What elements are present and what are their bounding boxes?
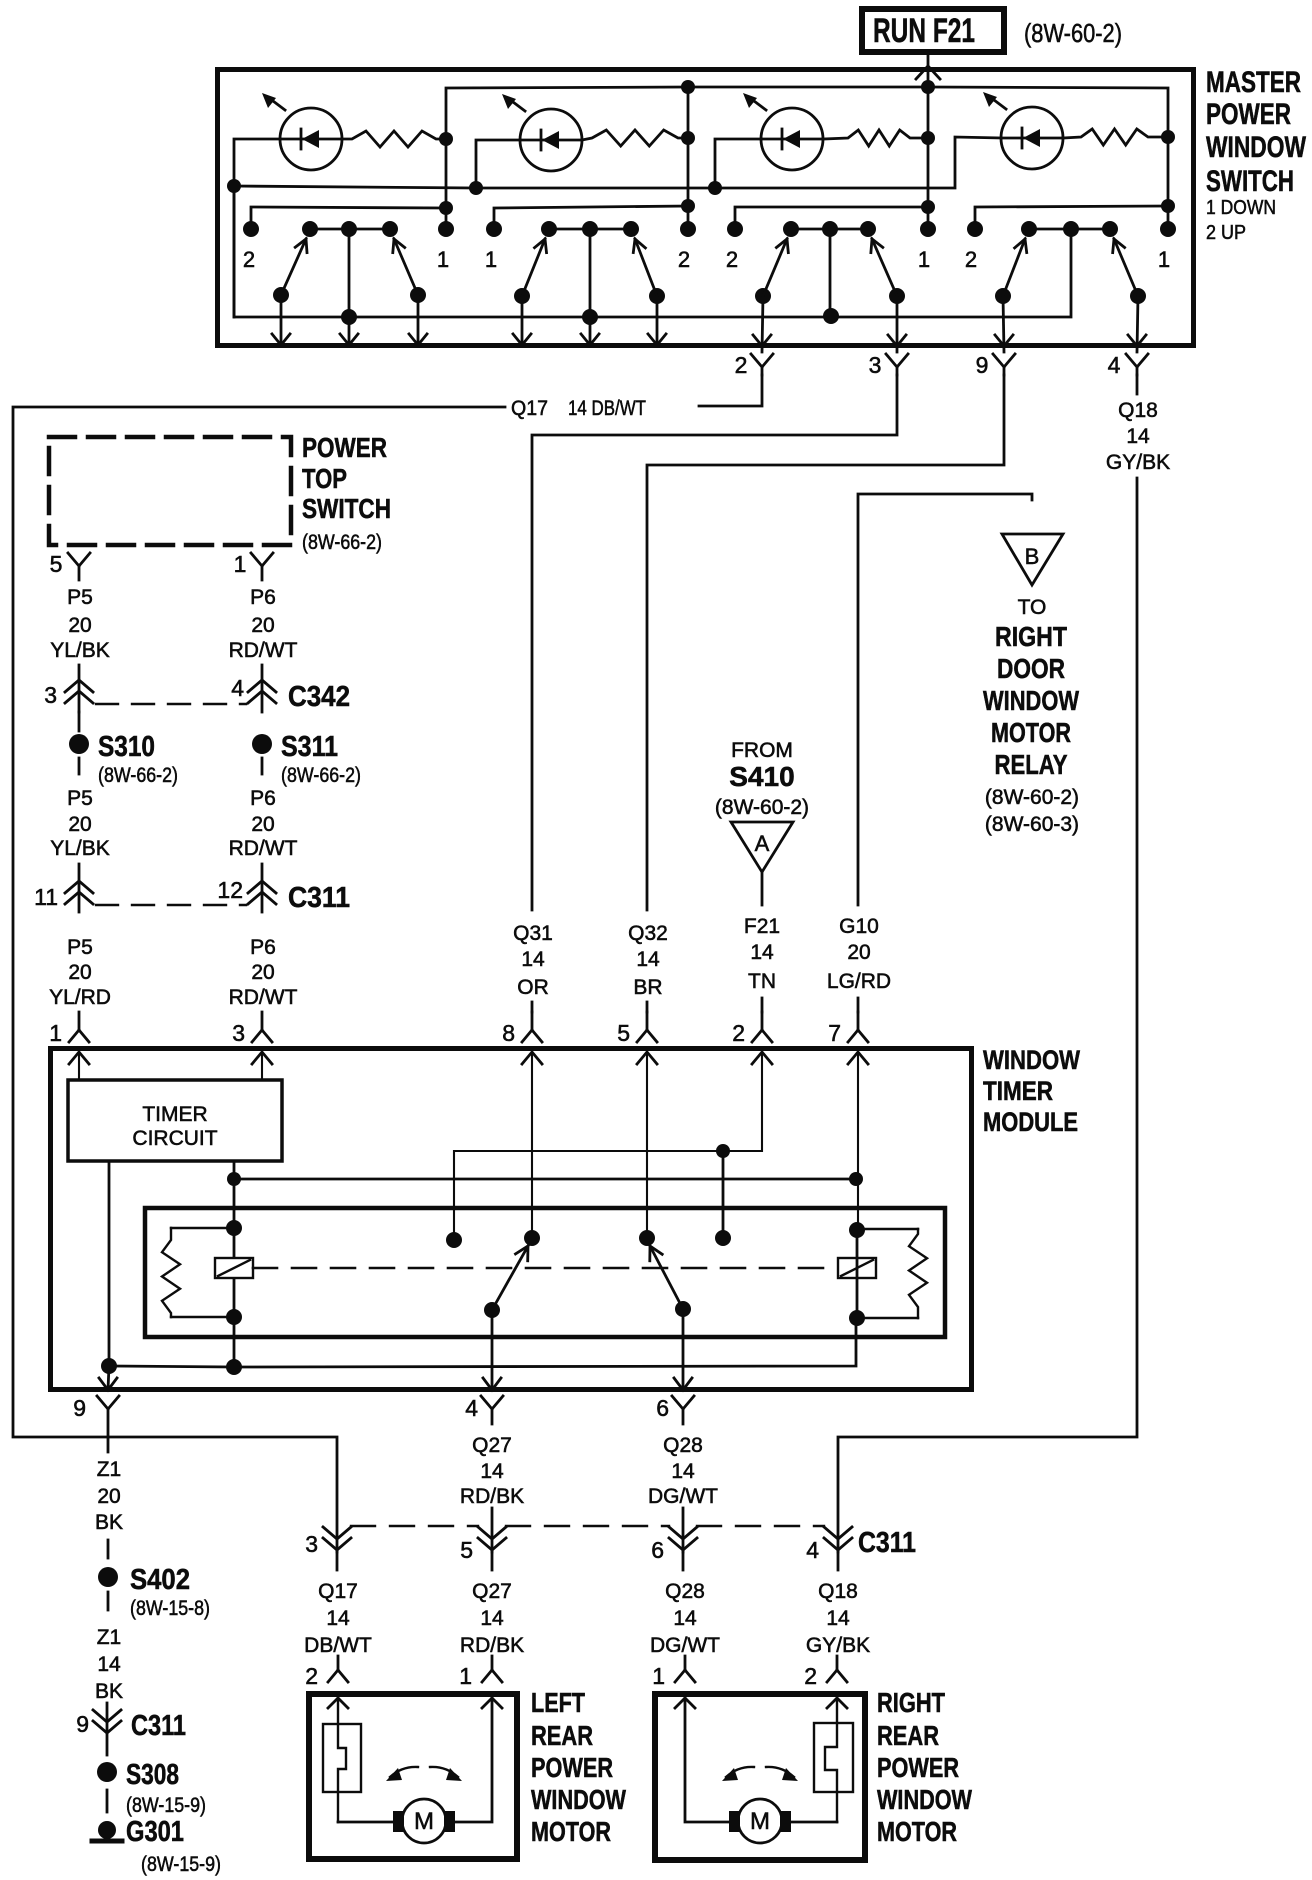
off-page connector triangle B [1002, 534, 1063, 585]
svg-text:RD/BK: RD/BK [460, 1634, 524, 1657]
svg-text:2: 2 [726, 247, 738, 272]
svg-text:FROM: FROM [731, 739, 793, 762]
svg-text:20: 20 [97, 1485, 120, 1508]
wire K2 coil vertical [856, 1230, 859, 1318]
switch S1 cell1 bridge [310, 228, 390, 231]
label MASTER POWER WINDOW SWITCH [1206, 66, 1307, 244]
svg-text:DG/WT: DG/WT [650, 1634, 720, 1657]
svg-text:Q31: Q31 [513, 922, 553, 945]
cell2 vertical x688 [687, 87, 690, 229]
svg-text:9: 9 [976, 352, 989, 378]
svg-text:12: 12 [217, 877, 243, 903]
left motor pin 1 entry arrow [482, 1698, 502, 1708]
module pin 4 connector Y [481, 1396, 503, 1424]
svg-text:3: 3 [305, 1531, 318, 1557]
svg-text:Q28: Q28 [663, 1434, 703, 1457]
dashed link C342 [96, 703, 246, 705]
svg-text:GY/BK: GY/BK [1106, 451, 1170, 474]
svg-text:(8W-66-2): (8W-66-2) [302, 531, 382, 554]
svg-text:3: 3 [869, 352, 882, 378]
wire Q32 lower stub + module pin 5 fork [646, 1002, 649, 1012]
svg-text:4: 4 [465, 1395, 478, 1421]
wire y207 segment cell4 [975, 206, 1168, 229]
cell3 left output arrow to pin 2 [762, 296, 763, 352]
svg-text:14: 14 [1126, 425, 1150, 448]
ground bus wire y1366 [109, 1318, 856, 1367]
svg-text:4: 4 [1108, 352, 1121, 378]
label Q32 14 BR [628, 922, 668, 999]
cell4 right output arrow to pin 4 [1137, 296, 1138, 352]
svg-text:YL/BK: YL/BK [50, 639, 110, 662]
svg-text:DOOR: DOOR [997, 653, 1065, 684]
left motor rotation arrows [386, 1767, 462, 1781]
labels Z1 14 BK [95, 1626, 123, 1703]
svg-text:(8W-60-3): (8W-60-3) [985, 813, 1079, 836]
label P6 20 RD/WT (lower) [229, 936, 298, 1009]
module pin 2 entry arrow [752, 1052, 772, 1064]
wire to S310 [78, 712, 81, 731]
svg-text:POWER: POWER [531, 1752, 613, 1783]
wire Q18 long run [838, 478, 1137, 1552]
connector C342 pin 3 [65, 680, 93, 703]
svg-text:WINDOW: WINDOW [983, 685, 1079, 716]
svg-text:14: 14 [750, 941, 774, 964]
svg-text:WINDOW: WINDOW [1206, 131, 1307, 164]
svg-text:2: 2 [965, 247, 977, 272]
svg-text:1 DOWN: 1 DOWN [1206, 197, 1276, 219]
lamp L4 cell 4 [983, 92, 1063, 169]
cell1 left lower arrow [280, 295, 283, 345]
module pin 1 entry arrow [69, 1052, 89, 1064]
dots on y207 [439, 199, 1175, 215]
label Q18 14 GY/BK [1106, 399, 1170, 474]
module pin 9 exit arrow [108, 1366, 109, 1390]
cell1 vertical x446 [445, 139, 448, 229]
svg-text:5: 5 [460, 1537, 473, 1563]
power top switch pin 5 connector Y [68, 553, 90, 580]
svg-text:LG/RD: LG/RD [827, 970, 891, 993]
switch arm cell1 left [281, 239, 306, 295]
svg-text:14: 14 [521, 948, 545, 971]
svg-text:G301: G301 [126, 1816, 184, 1848]
svg-text:Q32: Q32 [628, 922, 668, 945]
wire lamp2 left leg [476, 140, 520, 188]
pin 3 connector Y [886, 354, 908, 375]
connector C311 pin 6 [669, 1527, 697, 1570]
ground G301 [92, 1821, 122, 1841]
lamp L3 cell 3 [743, 93, 823, 170]
svg-text:2: 2 [735, 352, 748, 378]
label P5 20 YL/BK (mid) [50, 787, 110, 860]
lamp L2 cell 2 [502, 94, 582, 171]
label P5 20 YL/BK (upper) [50, 586, 110, 662]
svg-text:WINDOW: WINDOW [531, 1784, 626, 1815]
svg-text:RUN F21: RUN F21 [873, 12, 975, 50]
label P5 20 YL/RD (lower) [49, 936, 111, 1009]
splice S311 [252, 734, 272, 754]
svg-text:YL/RD: YL/RD [49, 986, 111, 1009]
svg-text:DG/WT: DG/WT [648, 1485, 718, 1508]
wire lamp3 left leg [715, 139, 761, 188]
svg-text:C311: C311 [858, 1527, 916, 1559]
wire P5 stub [78, 665, 81, 712]
label TO RIGHT DOOR WINDOW MOTOR RELAY [983, 596, 1079, 836]
wire timer to ground bus (left) [108, 1161, 111, 1366]
switch arm right (to pin 6) [650, 1246, 683, 1309]
pin 2 connector Y [751, 354, 773, 375]
wire Q31 lower stub + module pin 8 fork [531, 1002, 534, 1012]
module pin 8 entry arrow [522, 1052, 542, 1064]
switch arm left (to pin 4) [492, 1246, 528, 1310]
svg-text:14: 14 [480, 1607, 504, 1630]
svg-text:BK: BK [95, 1511, 123, 1534]
svg-text:(8W-60-2): (8W-60-2) [1024, 18, 1122, 48]
svg-text:OR: OR [517, 976, 549, 999]
svg-text:1: 1 [49, 1020, 62, 1046]
svg-text:3: 3 [44, 682, 57, 708]
lamp L1 (illumination LED cell 1) [262, 93, 342, 170]
label G10 20 LG/RD [827, 915, 891, 993]
svg-text:POWER: POWER [1206, 98, 1291, 131]
svg-text:5: 5 [50, 551, 63, 577]
right motor pin 2 fork [827, 1656, 847, 1682]
label F21 14 TN [744, 915, 780, 993]
switch S1 cell4 bridge [1029, 228, 1110, 231]
svg-text:S311: S311 [281, 731, 338, 763]
svg-text:C311: C311 [131, 1710, 186, 1742]
module pin 3 entry arrow [252, 1052, 272, 1064]
resistor R-L2 [582, 130, 688, 146]
left motor wires [338, 1821, 393, 1824]
svg-text:2: 2 [732, 1020, 745, 1046]
svg-text:Q17: Q17 [511, 397, 548, 420]
svg-text:REAR: REAR [877, 1720, 939, 1751]
label Q17 14 DB/WT (lower) [304, 1580, 372, 1657]
switch arm cell4 right [1114, 239, 1138, 296]
svg-text:(8W-15-9): (8W-15-9) [126, 1794, 206, 1817]
label Q27 14 RD/BK (lower) [460, 1580, 524, 1657]
module pin 5 entry arrow [637, 1052, 657, 1064]
module contact and junction dots [101, 1144, 865, 1375]
switch arm cell2 right [635, 239, 657, 296]
resistor R-L3 [823, 130, 928, 146]
relay K1 resistor leads [171, 1227, 234, 1229]
module pin 3 fork [252, 1012, 272, 1042]
wire dash to S402 [107, 1540, 110, 1558]
svg-text:(8W-66-2): (8W-66-2) [281, 764, 361, 787]
connector C311 pin 9 [93, 1703, 121, 1755]
svg-text:M: M [414, 1808, 434, 1835]
relay K2 resistor [909, 1229, 927, 1318]
module pin 6 connector Y [672, 1396, 694, 1424]
wire G10 riser and link to triangle B [858, 494, 1032, 905]
switch arm cell1 right [394, 239, 418, 295]
relay K2 resistor leads [857, 1228, 918, 1230]
svg-text:P6: P6 [250, 936, 276, 959]
module pin 7 entry arrow [848, 1052, 868, 1064]
svg-text:5: 5 [617, 1020, 630, 1046]
connector C311 pin 12 [248, 881, 276, 904]
label LEFT REAR POWER WINDOW MOTOR [531, 1687, 626, 1847]
module pin 9 connector Y [97, 1396, 119, 1452]
svg-text:TOP: TOP [302, 463, 347, 494]
svg-text:1: 1 [437, 247, 449, 272]
svg-text:BK: BK [95, 1680, 123, 1703]
svg-text:S410: S410 [729, 761, 794, 792]
svg-text:2: 2 [243, 247, 255, 272]
svg-text:20: 20 [68, 961, 91, 984]
timer circuit box [68, 1080, 282, 1161]
module pin 6 exit arrow [682, 1309, 685, 1390]
connector C342 pin 4 [248, 680, 276, 703]
wire F21 stub below triangle A [761, 872, 764, 905]
svg-text:TN: TN [748, 970, 776, 993]
svg-text:14: 14 [326, 1607, 350, 1630]
svg-text:CIRCUIT: CIRCUIT [132, 1127, 217, 1150]
svg-text:Q17: Q17 [318, 1580, 358, 1603]
right motor pin 1 fork [675, 1656, 695, 1682]
svg-text:POWER: POWER [302, 432, 387, 463]
svg-text:14: 14 [826, 1607, 850, 1630]
wire illumination bus y187 [234, 137, 1001, 188]
splice S310 lower dash [78, 758, 81, 774]
dots on bottom bus y317 [341, 308, 839, 325]
switch arm cell4 left [1003, 239, 1025, 296]
right motor box [655, 1694, 865, 1860]
svg-text:RIGHT: RIGHT [995, 621, 1067, 652]
right motor rotation arrows [722, 1767, 798, 1781]
svg-text:DB/WT: DB/WT [304, 1634, 372, 1657]
connector C311 pin 3 [323, 1527, 351, 1570]
svg-text:14: 14 [673, 1607, 697, 1630]
wire stub above C311 [78, 864, 81, 912]
svg-text:RD/WT: RD/WT [229, 986, 298, 1009]
splice S308 [97, 1762, 117, 1782]
svg-text:MOTOR: MOTOR [531, 1816, 611, 1847]
svg-text:9: 9 [73, 1395, 86, 1421]
svg-text:(8W-60-2): (8W-60-2) [985, 786, 1079, 809]
dashed links C311 row [351, 1525, 824, 1527]
svg-text:2: 2 [305, 1663, 318, 1689]
connector C311 pin 11 [65, 881, 93, 904]
wire dash below S308 [106, 1790, 109, 1812]
svg-text:14: 14 [636, 948, 660, 971]
right motor pin 2 entry arrow [827, 1698, 847, 1708]
svg-text:YL/BK: YL/BK [50, 837, 110, 860]
wire timer to relay K1 coil [233, 1161, 236, 1367]
svg-text:WINDOW: WINDOW [877, 1784, 972, 1815]
svg-text:14 DB/WT: 14 DB/WT [568, 397, 646, 420]
svg-text:SWITCH: SWITCH [302, 493, 391, 524]
svg-text:Q27: Q27 [472, 1580, 512, 1603]
svg-text:S308: S308 [126, 1759, 179, 1791]
svg-text:MASTER: MASTER [1206, 66, 1301, 99]
switch arm cell3 right [872, 239, 897, 296]
svg-text:6: 6 [656, 1395, 669, 1421]
svg-text:Q28: Q28 [665, 1580, 705, 1603]
svg-text:1: 1 [485, 247, 497, 272]
svg-text:P6: P6 [250, 586, 276, 609]
svg-text:1: 1 [1158, 247, 1170, 272]
svg-text:(8W-15-9): (8W-15-9) [141, 1853, 221, 1876]
wire Q18 from pin 4 [1136, 375, 1139, 394]
switch S1 lower contacts [273, 287, 1146, 304]
wire y207 segment cell2 [494, 206, 688, 229]
cell2 left lower arrow [521, 296, 524, 345]
switch arm cell2 left [522, 239, 545, 296]
label Q31 14 OR [513, 922, 553, 999]
window timer module box [51, 1049, 972, 1390]
svg-text:20: 20 [68, 614, 91, 637]
cell3 center wire [829, 229, 832, 316]
svg-text:TO: TO [1018, 596, 1047, 619]
svg-text:RD/BK: RD/BK [460, 1485, 524, 1508]
svg-text:F21: F21 [744, 915, 780, 938]
svg-text:14: 14 [671, 1460, 695, 1483]
power top switch pin 1 connector Y [251, 553, 273, 580]
left motor pin 2 entry arrow [328, 1698, 348, 1708]
left motor pin 2 fork [328, 1656, 348, 1682]
svg-text:TIMER: TIMER [983, 1076, 1053, 1106]
svg-text:2: 2 [804, 1663, 817, 1689]
svg-text:(8W-15-8): (8W-15-8) [130, 1597, 210, 1620]
resistor R-L4 [1063, 129, 1168, 145]
label Q17 14 DB/WT [511, 397, 646, 420]
right motor M [729, 1799, 791, 1843]
svg-text:C311: C311 [288, 882, 350, 914]
cell1 right lower arrow [417, 295, 420, 345]
wire Q17 from pin 2 [699, 375, 762, 406]
svg-text:MODULE: MODULE [983, 1107, 1078, 1137]
label P6 20 RD/WT (upper) [229, 586, 298, 662]
svg-text:BR: BR [633, 976, 662, 999]
splice S402 [98, 1567, 118, 1587]
svg-text:M: M [750, 1808, 770, 1835]
left motor M [393, 1799, 455, 1843]
mechanical link dashed [253, 1267, 838, 1270]
relay inner box [145, 1208, 945, 1337]
label RIGHT REAR POWER WINDOW MOTOR [877, 1687, 972, 1847]
svg-text:2 UP: 2 UP [1206, 222, 1246, 244]
master power window switch box [218, 70, 1194, 346]
right motor circuit breaker [814, 1698, 853, 1822]
resistor R-L1 [342, 131, 446, 147]
wire K1 top to K2 top link y1179 [234, 1178, 856, 1181]
svg-text:(8W-66-2): (8W-66-2) [98, 764, 178, 787]
svg-text:8: 8 [502, 1020, 515, 1046]
fuse feed RUN F21 box [862, 9, 1004, 52]
cell1 center wire + arrow [348, 229, 351, 345]
wire lamp1 left leg [234, 139, 280, 317]
svg-text:20: 20 [251, 813, 274, 836]
switch S1 cell3 bridge [791, 228, 868, 231]
ground leg Z1 labels [95, 1458, 123, 1534]
wire dash below S402 [107, 1592, 110, 1610]
switch arm cell3 left [763, 239, 787, 296]
switch S1 cell2 bridge [549, 228, 631, 231]
label WINDOW TIMER MODULE [983, 1045, 1080, 1137]
svg-text:P6: P6 [250, 787, 276, 810]
wire x723 contact drop [722, 1151, 725, 1238]
wire Q17 long run to C311 pin 3 [13, 407, 505, 1552]
svg-text:20: 20 [251, 961, 274, 984]
wire y207 segment cell1 [251, 207, 446, 229]
svg-text:Z1: Z1 [97, 1626, 122, 1649]
svg-text:Q18: Q18 [1118, 399, 1158, 422]
svg-text:P5: P5 [67, 936, 93, 959]
label Q27 14 RD/BK (upper) [460, 1434, 524, 1508]
pin 4 connector Y [1126, 354, 1148, 375]
off-page connector triangle A [731, 822, 793, 872]
svg-text:14: 14 [97, 1653, 121, 1676]
cell2 center wire + arrow [589, 229, 592, 345]
label P6 20 RD/WT (mid) [229, 787, 298, 860]
svg-text:20: 20 [251, 614, 274, 637]
junction dots lamps [227, 80, 1175, 195]
wire F21 lower stub + module pin 2 fork [761, 998, 764, 1012]
relay K1 coil [215, 1258, 253, 1278]
cell4 vertical x1168 [1167, 137, 1170, 229]
relay K2 coil [838, 1258, 876, 1278]
cell3 right output arrow to pin 3 [896, 296, 899, 352]
svg-text:TIMER: TIMER [142, 1103, 207, 1126]
left motor pin 1 fork [482, 1656, 502, 1682]
module pin 4 exit arrow [491, 1310, 494, 1390]
svg-text:REAR: REAR [531, 1720, 593, 1751]
pin 9 connector Y [993, 354, 1015, 375]
connector C311 pin 4 [824, 1527, 852, 1570]
terminal number labels row [243, 247, 1170, 272]
svg-text:20: 20 [847, 941, 870, 964]
svg-text:G10: G10 [839, 915, 879, 938]
dashed link C311 [96, 904, 246, 906]
svg-text:6: 6 [651, 1537, 664, 1563]
svg-text:20: 20 [68, 813, 91, 836]
svg-text:S310: S310 [98, 731, 155, 763]
svg-text:1: 1 [652, 1663, 665, 1689]
wire Q31 from pin 3 [532, 375, 897, 910]
svg-text:9: 9 [76, 1711, 89, 1737]
wire stubs into C311 row [491, 1508, 494, 1552]
wire G10 lower stub + module pin 7 fork [857, 998, 860, 1012]
right motor pin 1 entry arrow [675, 1698, 695, 1708]
cell4 left output arrow to pin 9 [1003, 296, 1004, 352]
splice S310 [69, 734, 89, 754]
label Q28 14 DG/WT (upper) [648, 1434, 718, 1508]
svg-text:7: 7 [828, 1020, 841, 1046]
svg-text:P5: P5 [67, 586, 93, 609]
connector C311 pin 5 [478, 1527, 506, 1570]
svg-text:S402: S402 [130, 1564, 190, 1596]
svg-text:LEFT: LEFT [531, 1687, 585, 1718]
svg-text:C342: C342 [288, 681, 350, 713]
switch S1 contacts row [243, 221, 1176, 237]
left motor circuit breaker [323, 1698, 361, 1822]
svg-text:1: 1 [918, 247, 930, 272]
wire Q32 from pin 9 [647, 375, 1004, 910]
wire from RUN F21 to switch (arrow up) [916, 53, 940, 87]
svg-text:11: 11 [34, 884, 58, 910]
svg-text:Q18: Q18 [818, 1580, 858, 1603]
wire top feed bus y87 [446, 87, 1168, 139]
left motor box [309, 1694, 517, 1859]
svg-text:POWER: POWER [877, 1752, 959, 1783]
label FROM S410 (8W-60-2) [715, 739, 809, 819]
svg-text:MOTOR: MOTOR [991, 717, 1071, 748]
svg-text:B: B [1025, 544, 1040, 569]
svg-text:RELAY: RELAY [995, 749, 1068, 780]
cell4 center wire to bottom bus [234, 186, 1071, 317]
